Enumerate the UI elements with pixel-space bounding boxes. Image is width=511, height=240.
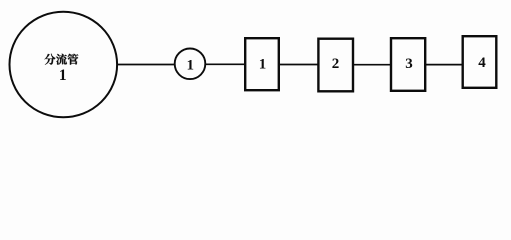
svg-text:1: 1 [59,67,67,84]
wire: circle to node 1 [117,64,175,66]
label 管 [68,54,79,65]
svg-text:3: 3 [405,56,413,72]
svg-text:4: 4 [478,55,486,71]
svg-text:1: 1 [186,57,194,73]
label 流 [56,54,67,65]
block 1 [245,38,279,90]
wire: block 1 to block 2 [280,64,319,66]
svg-text:2: 2 [332,56,340,72]
block 4 [463,36,497,88]
wire: block 3 to block 4 [426,64,463,66]
shunt-pipe circle 分流管1 [10,12,118,118]
wire: node 1 to block 1 [206,63,246,65]
node circle 1 [175,49,206,80]
svg-text:1: 1 [259,57,267,73]
block 2 [318,39,353,92]
block 3 [391,38,425,91]
wire: block 2 to block 3 [354,64,391,66]
label 分 [44,54,55,65]
